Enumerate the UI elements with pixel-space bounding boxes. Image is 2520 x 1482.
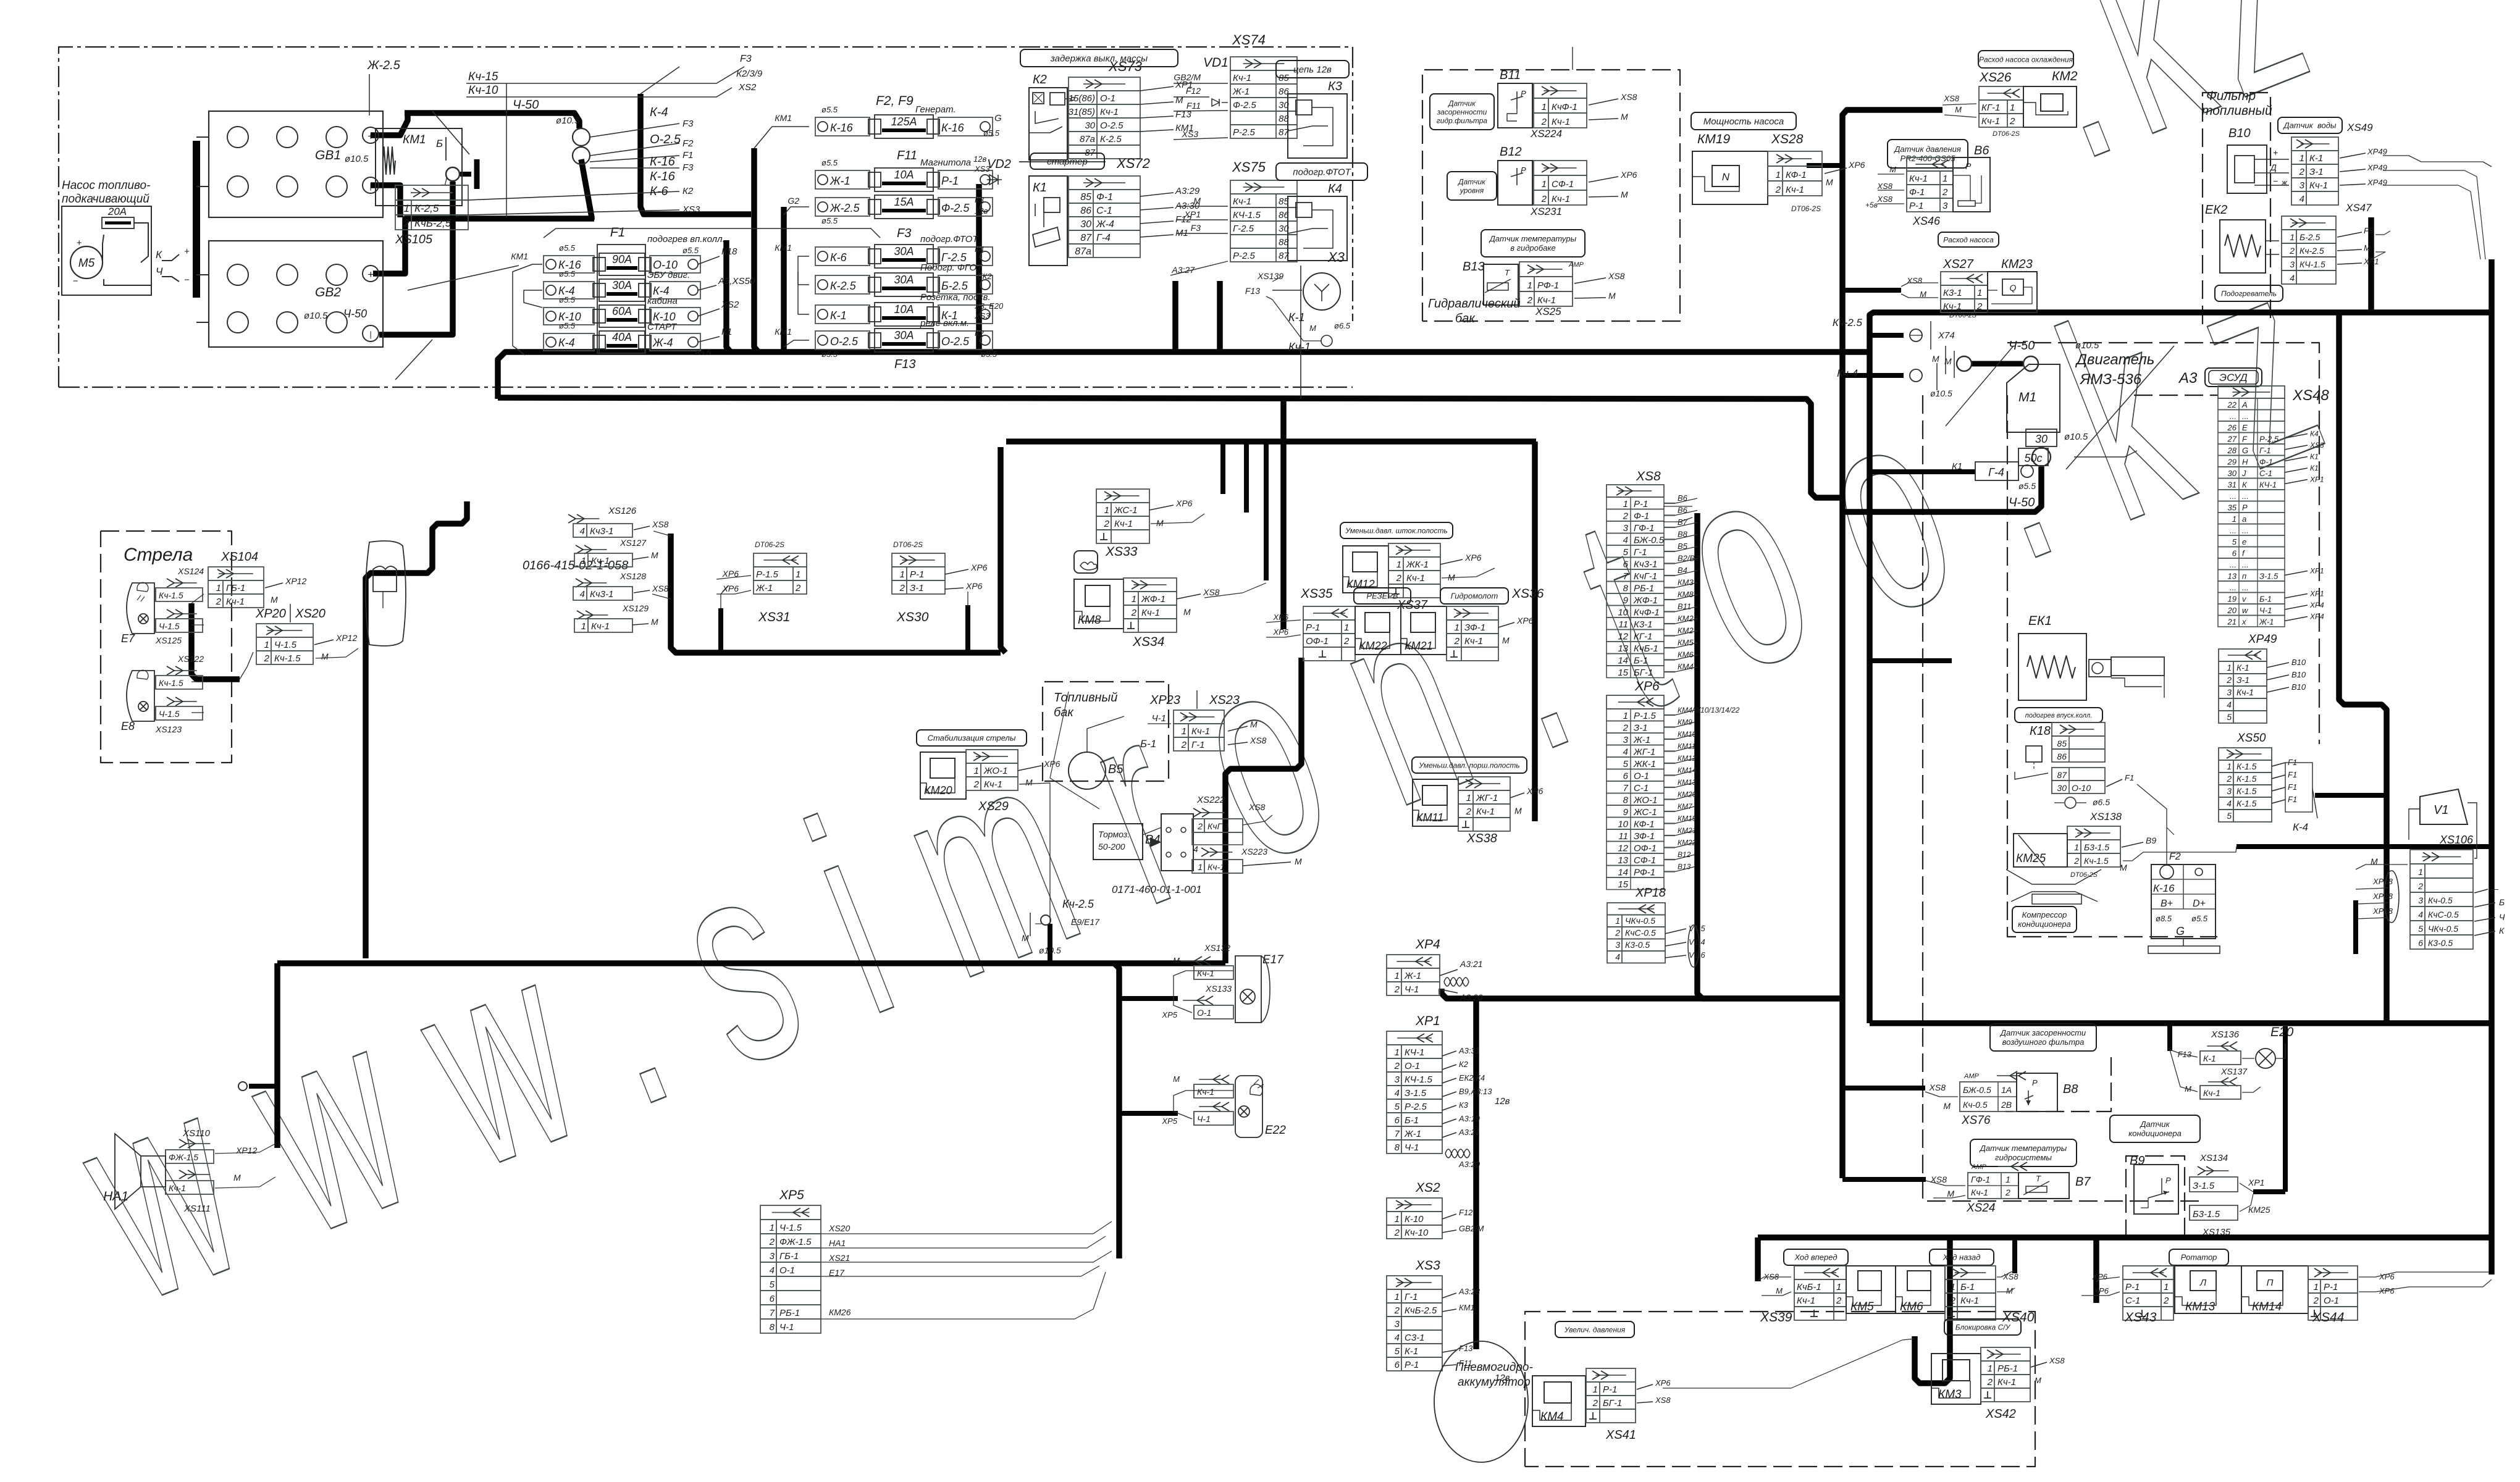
svg-text:...: ... [2242,583,2249,592]
svg-text:XP6: XP6 [1655,1378,1671,1388]
svg-text:Б3-1.5: Б3-1.5 [2193,1209,2220,1220]
svg-text:Г-2.5: Г-2.5 [1233,224,1254,234]
svg-text:Р-1.5: Р-1.5 [756,569,779,580]
svg-text:7: 7 [770,1308,775,1318]
svg-text:К-16: К-16 [2153,882,2175,894]
svg-text:ø5.5: ø5.5 [695,348,712,357]
svg-text:О-2.5: О-2.5 [941,335,970,348]
svg-text:XP5: XP5 [1161,1010,1177,1019]
svg-text:Ч-1: Ч-1 [779,1322,794,1333]
svg-text:гидросистемы: гидросистемы [1995,1153,2052,1162]
svg-text:гидр.фильтра: гидр.фильтра [1437,116,1488,125]
svg-text:J: J [2241,469,2246,478]
svg-text:РБ-1: РБ-1 [779,1308,800,1318]
K1 stub to Г-4 [1870,469,1975,474]
svg-text:XP6: XP6 [1516,616,1534,626]
svg-text:К3: К3 [975,195,985,204]
svg-text:С3-1: С3-1 [1405,1333,1425,1343]
fuel filter dashed box [2203,93,2270,324]
svg-text:О-1: О-1 [1634,771,1649,782]
svg-text:6: 6 [2418,938,2423,948]
svg-text:...: ... [2242,560,2249,569]
svg-text:К3-1: К3-1 [1634,619,1653,630]
svg-text:13: 13 [1618,855,1628,866]
svg-text:КМ21: КМ21 [1678,826,1696,835]
svg-text:XP6: XP6 [970,563,988,572]
svg-text:1: 1 [1776,170,1781,180]
svg-text:+: + [367,269,374,280]
svg-text:Кч-1: Кч-1 [1114,519,1133,529]
XS35 feed x2078 [1280,401,1287,629]
svg-text:XP6: XP6 [1175,498,1193,508]
svg-text:4: 4 [2418,910,2423,919]
svg-text:е: е [2242,537,2246,546]
svg-text:10: 10 [1618,819,1628,830]
B6 pressure sensor [1888,140,1968,168]
svg-text:М: М [1022,933,1029,943]
B9 AC sensor [2110,1115,2200,1142]
svg-text:21: 21 [2227,617,2236,627]
svg-text:К18: К18 [2030,724,2051,738]
svg-text:Генерат.: Генерат. [915,104,956,115]
svg-text:ГФ-1: ГФ-1 [1971,1174,1990,1184]
svg-text:6: 6 [2232,549,2237,558]
svg-text:Б-2.5: Б-2.5 [2299,232,2320,242]
svg-text:ЗФ-1: ЗФ-1 [1634,831,1655,842]
svg-text:К4: К4 [1328,182,1342,196]
svg-text:Датчик: Датчик [2139,1120,2170,1129]
svg-text:...: ... [2230,526,2236,535]
svg-text:F12: F12 [1186,86,1201,96]
svg-text:2: 2 [1131,608,1137,618]
svg-text:КМ11: КМ11 [1416,811,1443,824]
svg-text:1: 1 [581,556,586,566]
svg-text:КМ1: КМ1 [775,113,792,123]
svg-text:КчГ-1: КчГ-1 [1207,821,1230,831]
svg-text:З-1: З-1 [2309,167,2324,177]
svg-text:С-1: С-1 [2125,1296,2140,1306]
svg-text:Ч-50: Ч-50 [2009,339,2035,353]
svg-text:XS2: XS2 [738,82,757,93]
svg-text:НА1: НА1 [829,1238,846,1248]
svg-text:ЭСУД: ЭСУД [2219,372,2247,383]
svg-text:XS8: XS8 [1876,182,1892,191]
svg-text:10А: 10А [894,169,913,181]
svg-text:2: 2 [1454,636,1460,647]
svg-text:Кч-1: Кч-1 [1406,573,1425,584]
svg-text:Г-4: Г-4 [1988,466,2004,479]
svg-text:К2/3/9: К2/3/9 [736,69,763,79]
svg-text:К1: К1 [1952,461,1962,472]
svg-text:ОФ-1: ОФ-1 [1634,844,1657,854]
svg-text:СФ-1: СФ-1 [1552,179,1574,190]
svg-text:Р-1: Р-1 [910,569,924,580]
svg-text:XP6: XP6 [965,581,983,591]
big slashes over engine (scan artifacts) [2066,346,2174,469]
svg-text:ø5.5: ø5.5 [981,350,997,359]
svg-text:XP1: XP1 [2309,567,2324,576]
svg-text:Ч-1.5: Ч-1.5 [159,621,180,631]
svg-text:2: 2 [1343,636,1350,647]
svg-text:ø10.5: ø10.5 [1039,945,1061,955]
svg-text:Б-1: Б-1 [1405,1115,1419,1126]
svg-text:ЯМЗ-536: ЯМЗ-536 [2079,371,2142,388]
svg-text:8: 8 [770,1322,775,1333]
rabbit icon [1074,551,1098,573]
svg-text:З-1: З-1 [1634,723,1648,734]
svg-text:Ж-4: Ж-4 [652,337,673,349]
svg-text:СТАРТ: СТАРТ [647,322,678,332]
svg-text:60А: 60А [612,305,632,317]
svg-text:КМ19: КМ19 [1678,814,1697,823]
svg-text:XS8: XS8 [1930,1174,1947,1184]
svg-text:4: 4 [580,589,585,600]
svg-text:—: — [2490,884,2499,894]
svg-text:Кч-1: Кч-1 [984,779,1002,790]
svg-text:К-1.5: К-1.5 [2236,798,2257,808]
svg-text:К-16: К-16 [650,170,676,183]
svg-text:Кч-1: Кч-1 [1476,806,1495,817]
svg-text:XS222: XS222 [1196,795,1225,805]
svg-text:ø5.5: ø5.5 [682,246,699,255]
fuel sender bean [366,541,406,646]
svg-text:XP4: XP4 [2309,613,2324,621]
svg-text:Г-1: Г-1 [1634,547,1647,558]
svg-text:XS135: XS135 [2202,1227,2231,1237]
svg-text:Кч-1: Кч-1 [1909,174,1928,184]
svg-text:К-1: К-1 [1288,311,1305,324]
svg-text:Р-2.5: Р-2.5 [1233,127,1256,138]
svg-text:XP18: XP18 [2372,892,2393,901]
svg-text:М: М [1826,177,1833,187]
svg-text:РЕЗЕРВ: РЕЗЕРВ [1366,592,1398,601]
svg-text:ø5.5: ø5.5 [559,269,576,278]
svg-text:КчФ-1: КчФ-1 [1552,102,1577,112]
svg-text:10А: 10А [894,303,913,316]
svg-text:в гидробаке: в гидробаке [1510,243,1556,253]
XS49 to right bus thin wires [2383,156,2492,167]
svg-text:2: 2 [1836,1296,1842,1306]
svg-text:С-1: С-1 [1096,206,1112,216]
svg-text:87а: 87а [1080,134,1095,144]
KM12 / XS37 rod-side pressure [1340,522,1453,538]
svg-text:20: 20 [2227,606,2237,615]
svg-text:А3:19: А3:19 [1458,1114,1480,1123]
svg-text:30А: 30А [894,274,913,286]
svg-text:воздушного фильтра: воздушного фильтра [2002,1037,2085,1047]
svg-text:Б-1: Б-1 [2259,595,2272,604]
svg-text:1: 1 [770,1223,775,1233]
svg-text:КМ12: КМ12 [1678,754,1697,763]
svg-text:К: К [156,249,162,261]
svg-text:Е22: Е22 [1265,1124,1286,1137]
svg-text:Двигатель: Двигатель [2075,351,2154,368]
svg-text:А: А [2241,400,2248,409]
svg-text:КчС-0.5: КчС-0.5 [1625,928,1656,938]
svg-text:...: ... [2230,560,2236,569]
svg-text:1: 1 [2074,842,2079,852]
B11 clog sensor [1430,94,1494,130]
svg-text:+: + [184,246,190,257]
svg-text:Ход вперед: Ход вперед [1794,1253,1837,1262]
svg-text:x: x [2241,617,2246,627]
svg-text:Кч-1: Кч-1 [1960,1296,1979,1306]
svg-text:XS224: XS224 [1530,128,1562,140]
diode VD2 [987,179,1002,180]
svg-text:6: 6 [770,1294,775,1304]
svg-text:А3:29: А3:29 [1175,186,1200,196]
svg-text:ЖО-1: ЖО-1 [1633,795,1657,806]
watermark www...kz [41,198,2355,1362]
svg-text:Ж-2.5: Ж-2.5 [367,59,401,72]
svg-text:КчФ-1: КчФ-1 [1634,608,1660,618]
svg-text:2: 2 [973,779,980,790]
svg-text:XS27: XS27 [1942,257,1974,271]
svg-text:З-1.5: З-1.5 [2259,572,2278,581]
bus2 horizontal y646 [498,398,1842,498]
svg-text:М: М [1621,112,1628,122]
svg-text:XS43: XS43 [2124,1310,2157,1325]
svg-text:XS38: XS38 [1466,832,1497,845]
svg-text:3: 3 [1623,523,1629,534]
svg-text:АМР: АМР [1963,1073,1980,1080]
svg-text:КМ4: КМ4 [1540,1410,1564,1423]
svg-text:XP49: XP49 [2367,147,2387,156]
svg-text:F1: F1 [610,225,626,240]
svg-text:КМ20: КМ20 [1678,790,1697,799]
svg-text:XP6: XP6 [2093,1286,2109,1296]
svg-text:2: 2 [1623,723,1629,734]
svg-text:7: 7 [1395,1129,1400,1139]
svg-text:12в: 12в [1495,1096,1510,1107]
svg-text:К-10: К-10 [653,311,676,323]
svg-text:В10: В10 [2291,658,2306,667]
svg-text:ø5.5: ø5.5 [983,128,1000,138]
svg-text:АМР: АМР [1971,1163,1987,1171]
svg-text:О-1: О-1 [2324,1296,2339,1306]
svg-text:ЖК-1: ЖК-1 [1633,759,1656,769]
svg-text:XS25: XS25 [1535,306,1561,317]
svg-text:Кч-1: Кч-1 [1971,1187,1988,1197]
svg-text:26: 26 [2227,423,2237,432]
B8 stub [1842,1086,1925,1091]
svg-text:8: 8 [1623,795,1629,806]
svg-text:1: 1 [2010,103,2015,113]
Ч-50 wire from x2983 up to M1 50c circle [1842,467,2041,512]
svg-text:Магнитола: Магнитола [920,157,971,168]
svg-text:ø10.5: ø10.5 [304,311,328,321]
svg-text:DT06-2S: DT06-2S [1791,204,1821,213]
svg-text:К4: К4 [975,245,984,254]
svg-text:D+: D+ [2193,898,2206,909]
XS47 wires to x3839 [2375,231,2390,235]
svg-text:КМ21: КМ21 [1405,640,1433,652]
svg-text:КМ6: КМ6 [1900,1300,1923,1313]
svg-text:+: + [367,130,374,142]
svg-text:Ф-2.5: Ф-2.5 [941,202,970,214]
svg-text:40А: 40А [612,331,632,343]
svg-text:XS3: XS3 [1415,1258,1440,1273]
svg-text:А3:20: А3:20 [1459,992,1483,1002]
svg-text:К-6: К-6 [830,251,847,264]
svg-text:А3:31: А3:31 [1458,1046,1480,1055]
svg-text:2: 2 [2299,167,2305,177]
svg-text:Кч-1: Кч-1 [1797,1296,1815,1306]
svg-text:XS3: XS3 [974,311,990,320]
svg-text:В11: В11 [1678,602,1691,611]
svg-text:2: 2 [1197,821,1203,831]
E20 stub [2167,1023,2172,1051]
XS105 table [395,185,468,200]
svg-text:1: 1 [1836,1282,1841,1292]
svg-text:1: 1 [1395,1292,1400,1302]
svg-text:DT06-2S: DT06-2S [1949,312,1977,319]
svg-text:Кч-1: Кч-1 [1288,341,1311,353]
svg-text:В5: В5 [1678,542,1688,551]
svg-text:Е8: Е8 [121,720,135,732]
svg-text:Е7: Е7 [121,632,135,645]
svg-text:К-1: К-1 [2236,663,2249,672]
svg-text:Р-1: Р-1 [1603,1384,1617,1395]
svg-text:3: 3 [1615,940,1620,950]
svg-text:Подогреватель: Подогреватель [2221,289,2277,298]
svg-text:реле вкл.м.: реле вкл.м. [920,318,969,329]
stub at y1070 [1870,658,1952,663]
svg-text:Ж-2.5: Ж-2.5 [829,202,860,214]
busA y506 with corner at x3027 [1870,312,2492,1023]
svg-text:К-2.5: К-2.5 [1100,134,1122,144]
svg-text:XS8: XS8 [1943,94,1959,103]
svg-text:XS73: XS73 [1108,59,1143,74]
svg-text:1: 1 [1542,179,1547,190]
svg-text:12в: 12в [973,154,986,164]
svg-text:КМ1: КМ1 [775,243,792,253]
svg-text:Ж-1: Ж-1 [829,175,850,187]
vertical x2983 XS26 feed down to lower bus [1842,110,1942,1178]
svg-text:В4: В4 [1678,566,1687,575]
svg-text:XS41: XS41 [1605,1428,1636,1442]
svg-text:Кч-4: Кч-4 [1837,367,1858,379]
svg-text:XP49: XP49 [2367,178,2387,187]
svg-text:ø5.5: ø5.5 [821,216,838,225]
ground switch T-bar [460,172,471,177]
svg-text:КчБ-1: КчБ-1 [1797,1282,1821,1292]
KM11 feed x2485 [1532,442,1538,821]
svg-text:КМ10: КМ10 [1678,730,1697,739]
svg-text:Компрессор: Компрессор [2022,910,2067,919]
svg-text:КМ1: КМ1 [775,327,792,337]
K-4 fuse stub [2315,793,2387,798]
svg-text:2: 2 [264,653,270,664]
svg-text:Р-2.5: Р-2.5 [2259,435,2279,444]
svg-text:Кч-1: Кч-1 [2236,687,2254,697]
svg-text:28: 28 [2227,446,2237,455]
svg-text:35: 35 [2228,503,2237,513]
svg-text:З-1: З-1 [910,583,924,593]
svg-text:2: 2 [1394,1061,1400,1071]
svg-text:1: 1 [1104,505,1109,516]
svg-text:ЕК2: ЕК2 [2205,203,2227,217]
svg-text:F2, F9: F2, F9 [876,94,913,108]
svg-text:Р-1: Р-1 [941,175,959,187]
svg-text:В12: В12 [1678,850,1691,859]
svg-text:КМ22: КМ22 [1678,839,1697,847]
svg-text:F: F [2242,435,2248,444]
svg-text:XS127: XS127 [619,538,647,548]
svg-text:Кч-1: Кч-1 [169,1183,186,1193]
svg-text:1: 1 [2299,153,2304,164]
svg-text:4: 4 [1623,535,1628,546]
svg-text:К1: К1 [721,327,732,337]
svg-text:V1:4: V1:4 [1689,937,1705,947]
svg-text:М: М [1955,105,1962,114]
svg-text:Б: Б [2499,897,2505,907]
svg-text:1: 1 [216,583,221,593]
svg-text:XP23: XP23 [1149,693,1180,707]
svg-text:кондиционера: кондиционера [2018,919,2071,929]
svg-text:DT06-2S: DT06-2S [1993,130,2020,138]
svg-text:XP20: XP20 [255,607,286,621]
Кч-2.5 / Кч-4 stubs [1870,333,1904,338]
svg-text:+: + [77,238,82,248]
svg-text:Уменьш.давл. порш.полость: Уменьш.давл. порш.полость [1418,761,1519,769]
svg-text:Р-1: Р-1 [1405,1360,1419,1370]
svg-text:ЧКч-0.5: ЧКч-0.5 [2428,924,2458,934]
svg-text:2: 2 [1394,1228,1400,1238]
svg-text:⊥: ⊥ [440,175,450,188]
svg-text:14: 14 [1618,868,1628,878]
KM11 / XS38 piston-side pressure [1412,757,1527,773]
svg-text:XP6: XP6 [1272,613,1288,622]
svg-text:−: − [73,276,78,287]
svg-text:XS42: XS42 [1985,1407,2016,1421]
svg-text:7: 7 [1623,783,1629,793]
svg-text:ø5.5: ø5.5 [2191,914,2208,923]
XP1/XS2/XS3 column bus x2390 [1473,998,1479,1349]
svg-text:КЧ-1: КЧ-1 [2259,480,2277,490]
left area: E7/E8 collector [191,603,240,679]
svg-text:КФ-1: КФ-1 [1786,170,1807,180]
svg-text:Стрела: Стрела [124,545,193,565]
B9 dashed box [2126,1156,2185,1238]
svg-text:В+: В+ [2161,898,2173,909]
svg-text:К1: К1 [1033,181,1047,195]
svg-text:XS48: XS48 [2292,387,2329,404]
svg-text:Р-2.5: Р-2.5 [1405,1102,1427,1112]
svg-text:Р-1: Р-1 [2125,1282,2140,1292]
svg-text:Датчик температуры: Датчик температуры [1979,1144,2067,1153]
svg-text:Г-2.5: Г-2.5 [941,251,967,264]
svg-text:13: 13 [1618,643,1628,654]
svg-text:XS128: XS128 [619,571,646,581]
battery GB1 [209,111,383,217]
svg-text:А3,XS50: А3,XS50 [718,276,755,287]
svg-text:F13: F13 [894,358,915,371]
KM19 / XS28 pump power [1691,112,1796,130]
svg-text:КМ23: КМ23 [2001,257,2033,271]
svg-text:Топливный: Топливный [1054,691,1117,705]
svg-text:Ж-1: Ж-1 [755,583,773,593]
svg-text:15: 15 [1618,879,1628,890]
svg-text:Р: Р [1965,161,1972,171]
svg-text:11: 11 [1618,619,1628,630]
svg-text:М5: М5 [78,257,95,270]
svg-text:Фильтр: Фильтр [2206,89,2256,103]
svg-text:ЗФ-1: ЗФ-1 [1464,622,1485,633]
svg-text:86: 86 [1080,206,1091,216]
svg-text:XS50: XS50 [2236,732,2266,745]
svg-text:XS106: XS106 [2439,834,2474,846]
